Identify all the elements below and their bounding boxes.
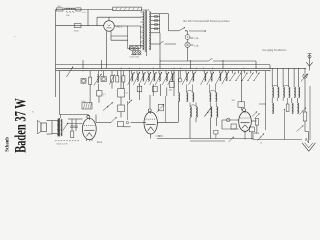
svg-text:0,3A: 0,3A <box>194 37 199 40</box>
svg-text:5016 4,5 W: 5016 4,5 W <box>57 144 69 146</box>
svg-text:0,1A: 0,1A <box>194 44 199 47</box>
svg-text:4,5 W: 4,5 W <box>155 136 160 138</box>
svg-text:Bei 125 V Netzanschluß Sicheru: Bei 125 V Netzanschluß Sicherung umlöten <box>184 20 231 23</box>
svg-text:Baden 37 W: Baden 37 W <box>11 98 29 153</box>
svg-text:5000: 5000 <box>74 30 80 32</box>
svg-text:AZ 1: AZ 1 <box>117 24 123 28</box>
svg-text:Schaub: Schaub <box>5 137 10 152</box>
svg-text:AL4: AL4 <box>97 140 102 144</box>
svg-text:6,3V 0,3A: 6,3V 0,3A <box>130 56 140 59</box>
svg-text:u.W.: u.W. <box>82 12 86 14</box>
svg-text:Nur gültig für Allstrom: Nur gültig für Allstrom <box>263 49 287 52</box>
svg-text:+: + <box>14 35 16 39</box>
